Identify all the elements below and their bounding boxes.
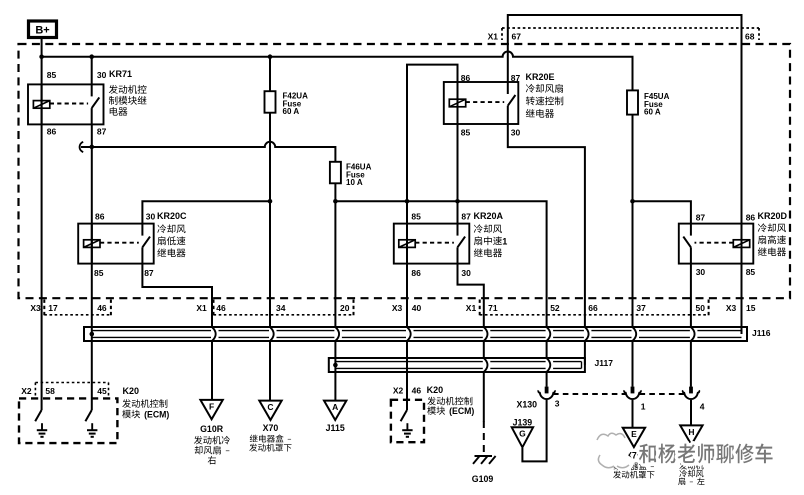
fuse F46UA 10A [330, 162, 372, 202]
wire KR20E-86 jog left and down through KR20A coil to ECM X2-46 [407, 65, 458, 410]
svg-text:X130: X130 [516, 399, 537, 409]
rail B: F46UA output to coils junction, down to X1-52 and X130-3 [333, 199, 546, 387]
svg-text:J117: J117 [595, 358, 614, 368]
connector X1 top row (pins 67, 68) [488, 28, 759, 42]
svg-text:KR20E: KR20E [526, 72, 555, 82]
svg-text:4: 4 [700, 402, 705, 412]
harness J116 [84, 327, 771, 341]
svg-text:C: C [267, 402, 273, 412]
svg-text:1: 1 [641, 402, 646, 412]
harness J117 [329, 358, 613, 372]
connector E to X70 (underhood relay box) [613, 428, 654, 479]
svg-text:71: 71 [488, 303, 498, 313]
svg-text:20: 20 [340, 303, 350, 313]
svg-text:30: 30 [696, 267, 706, 277]
label K20 ECM middle [427, 385, 475, 416]
svg-text:85: 85 [746, 267, 756, 277]
svg-text:30: 30 [146, 212, 156, 222]
label KR71 and Chinese description [109, 69, 147, 116]
wire X1-20 down through J116 to J117 left end and J115 (A) [334, 201, 336, 400]
svg-text:86: 86 [746, 213, 756, 223]
label KR20D and Chinese description [758, 211, 788, 256]
svg-text:67: 67 [512, 32, 522, 42]
label K20 ECM left [122, 386, 169, 420]
svg-text:50: 50 [696, 303, 706, 313]
svg-text:85: 85 [461, 127, 471, 137]
svg-text:KR71: KR71 [109, 69, 132, 79]
svg-text:86: 86 [47, 127, 57, 137]
ECM K20 middle dashed box [391, 400, 424, 442]
wire B+ vertical to KR71 pin 85 and down to ECM (X3-17, X2-58) [41, 38, 43, 411]
svg-text:45: 45 [97, 386, 107, 396]
watermark white blob [591, 433, 634, 471]
junction dot KR71-87 rail [90, 145, 95, 150]
relay KR20C (cooling fan low speed relay) [78, 212, 155, 278]
svg-text:46: 46 [216, 303, 226, 313]
svg-text:E: E [631, 429, 637, 439]
svg-text:K20: K20 [427, 385, 444, 395]
svg-text:87: 87 [511, 73, 521, 83]
svg-text:F: F [209, 401, 214, 411]
wire X130-1 to E connector [632, 400, 634, 428]
wire KR20D-30 down through X1-50 to X130-4 [690, 264, 692, 387]
svg-text:G: G [519, 429, 526, 439]
svg-text:G109: G109 [472, 474, 494, 484]
connector X2 row left (pins 58, 45) [21, 383, 108, 397]
svg-text:KR20A: KR20A [474, 211, 504, 221]
junction dots on top bus [39, 54, 272, 59]
wire KR20A-30 jog right down to X1-71 then G109 [458, 264, 484, 422]
svg-text:40: 40 [412, 303, 422, 313]
connector X130 pin 4 terminal [683, 387, 700, 400]
connector X130 inline (pins 3, 1, 4) [516, 394, 704, 412]
svg-text:87: 87 [97, 127, 107, 137]
svg-text:85: 85 [411, 212, 421, 222]
svg-text:85: 85 [47, 70, 57, 80]
wire dashed to ground G109 [483, 421, 485, 452]
svg-text:J116: J116 [752, 328, 771, 338]
svg-text:66: 66 [588, 303, 598, 313]
svg-text:46: 46 [412, 386, 422, 396]
svg-text:30: 30 [97, 70, 107, 80]
svg-text:52: 52 [550, 303, 560, 313]
svg-text:K20: K20 [123, 386, 140, 396]
label KR20E and Chinese description [526, 72, 564, 118]
wire KR71 pin 30 from bus [91, 57, 93, 85]
label KR20C and Chinese description [157, 211, 187, 257]
svg-text:B+: B+ [35, 25, 49, 37]
svg-text:X70: X70 [263, 423, 279, 433]
svg-text:34: 34 [276, 303, 286, 313]
svg-text:15: 15 [746, 303, 756, 313]
wire bus from B+ across top with hop over X1-67 wire, into F45UA [42, 52, 633, 91]
wire KR71-87 down through KR20C coil to ECM X2-45 (passes J116) [91, 124, 93, 410]
relay KR20E (cooling fan speed control relay) [444, 73, 521, 138]
connector H to G10L (engine cooling fan left) [678, 425, 704, 485]
connector C to X70 (underhood relay box) [249, 401, 291, 452]
svg-text:X2: X2 [21, 386, 32, 396]
svg-text:X2: X2 [393, 386, 404, 396]
svg-text:1: 1 [502, 236, 507, 246]
rail C: F45UA output to KR20D-87 [630, 199, 691, 224]
K20 left switch to ground (pin 58) [35, 410, 47, 437]
underhood fuse block outer dashed box [19, 44, 791, 298]
connector G to J139 [512, 417, 533, 447]
svg-text:J115: J115 [326, 423, 345, 433]
svg-text:85: 85 [94, 268, 104, 278]
svg-text:X3: X3 [30, 303, 41, 313]
K20 middle switch to ground (pin 46) [401, 410, 413, 437]
svg-text:17: 17 [48, 303, 58, 313]
connector F to G10R (engine cooling fan right) [194, 400, 230, 464]
relay KR71 (engine control module relay) [28, 70, 107, 137]
top-right solid feed box (X1 pins 67-68) [508, 15, 742, 224]
wire X130-3 to J139 [522, 400, 546, 461]
svg-text:58: 58 [45, 386, 55, 396]
ECM K20 left dashed box [19, 398, 117, 443]
svg-text:H: H [688, 427, 694, 437]
svg-text:X1: X1 [466, 303, 477, 313]
wire X1-34 down to X70 (C) passing J116 [269, 201, 271, 400]
svg-text:60 A: 60 A [283, 107, 300, 116]
connector A to J115 [324, 401, 346, 433]
fuse F45UA 60A [627, 90, 670, 201]
wire KR20C-87 jog right down to G10R (X1-46) [142, 264, 212, 400]
connector row labels X3/X1 with brackets [30, 300, 755, 316]
svg-text:68: 68 [745, 32, 755, 42]
wire KR20E-30 jog right down to J117 right end (X1-66) [508, 124, 585, 365]
svg-text:X3: X3 [392, 303, 403, 313]
connector X2 row middle (pin 46) [393, 386, 421, 396]
svg-text:86: 86 [411, 268, 421, 278]
K20 left switch to ground (pin 45) [85, 410, 97, 437]
svg-text:46: 46 [97, 303, 107, 313]
label KR20A and Chinese description [474, 211, 508, 257]
svg-text:(ECM): (ECM) [449, 406, 474, 416]
svg-text:37: 37 [636, 303, 646, 313]
ground G109 chassis symbol [472, 456, 496, 484]
svg-text:J139: J139 [513, 417, 533, 427]
svg-text:10 A: 10 A [346, 178, 363, 187]
connector X130 pin 1 terminal [624, 387, 641, 400]
svg-text:A: A [332, 402, 338, 412]
rail A: KR20C-30 to F42UA junction [142, 199, 272, 224]
connector X130 pin 3 terminal [538, 387, 555, 400]
wire rail from KR71-87 to fuse F46UA with pigtail curl and hop over F42UA wire [80, 142, 336, 162]
svg-text:86: 86 [95, 212, 105, 222]
svg-text:X3: X3 [726, 303, 737, 313]
svg-text:X1: X1 [488, 32, 499, 42]
relay KR20D (cooling fan high speed relay) [679, 213, 756, 277]
svg-text:(ECM): (ECM) [144, 410, 169, 420]
relay KR20A (cooling fan medium speed 1 relay) [394, 212, 471, 278]
svg-text:30: 30 [461, 268, 471, 278]
svg-text:87: 87 [144, 268, 154, 278]
svg-text:3: 3 [555, 399, 560, 409]
watermark text 和杨老师聊修车 [639, 443, 773, 463]
wire KR20D-85 down through X3-15 into J116 right end [741, 264, 743, 334]
svg-text:KR20D: KR20D [758, 211, 788, 221]
wire KR20E-85 down to junction and KR20A-87 [457, 124, 459, 224]
svg-text:30: 30 [511, 127, 521, 137]
svg-text:86: 86 [461, 73, 471, 83]
svg-text:60 A: 60 A [644, 108, 661, 117]
wire X1-37 down to X130-1 [632, 201, 634, 386]
fuse F42UA 60A [265, 57, 309, 202]
svg-text:KR20C: KR20C [157, 211, 187, 221]
wire X130-4 to H connector [690, 400, 692, 425]
battery feed B+ terminal [29, 21, 57, 38]
svg-text:X1: X1 [196, 303, 207, 313]
svg-text:87: 87 [696, 213, 706, 223]
svg-text:87: 87 [461, 212, 471, 222]
svg-text:G10R: G10R [200, 424, 224, 434]
